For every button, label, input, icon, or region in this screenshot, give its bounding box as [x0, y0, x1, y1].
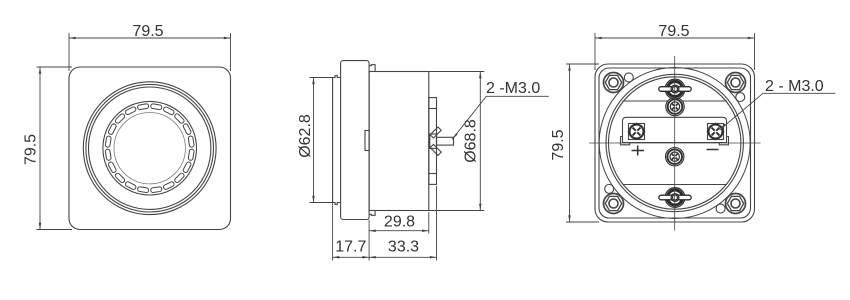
side flange mid tab — [365, 131, 369, 151]
back plus mark — [632, 146, 645, 156]
back body outer circle — [606, 74, 743, 211]
svg-text:17.7: 17.7 — [335, 239, 366, 256]
back terminal screw left — [628, 123, 645, 140]
back terminal left ear — [621, 137, 630, 145]
back terminal right ear — [719, 137, 728, 145]
side screw lower wing — [430, 144, 441, 155]
back lower chord line — [623, 184, 728, 186]
side screw upper wing — [430, 127, 441, 138]
side body bottom lip — [369, 211, 375, 216]
side bottom dimension 33.3 and 17.7 — [333, 186, 437, 261]
svg-text:79.5: 79.5 — [658, 23, 689, 40]
side dimension Ø62.8 — [310, 78, 333, 203]
back terminal block — [621, 117, 729, 145]
back center screw upper — [666, 97, 684, 115]
side screw head — [430, 134, 437, 148]
back label 2 - M3.0 leader — [720, 93, 836, 130]
side bottom dimension 29.8 — [369, 212, 429, 234]
back body inner circle — [609, 77, 741, 209]
front grille dashed slots ring — [105, 104, 194, 193]
side rear cap divider top — [429, 108, 437, 110]
svg-text:2 - M3.0: 2 - M3.0 — [765, 78, 824, 95]
side label 2-M3.0 leader — [452, 96, 549, 140]
svg-text:79.5: 79.5 — [132, 23, 163, 40]
svg-text:Ø68.8: Ø68.8 — [463, 119, 480, 163]
back inner square — [599, 68, 751, 218]
side screw shaft — [437, 137, 454, 145]
side bezel lens — [333, 76, 341, 205]
side rear cap — [429, 98, 437, 185]
front grille inner circle — [114, 113, 185, 184]
front grille outer circle — [103, 101, 197, 195]
side flange — [341, 61, 370, 220]
front ring circle b — [89, 87, 211, 209]
back terminal left square — [629, 124, 645, 140]
back vertical centerline — [674, 56, 676, 231]
svg-text:2 -M3.0: 2 -M3.0 — [486, 80, 540, 97]
svg-text:Ø62.8: Ø62.8 — [297, 114, 314, 158]
front outer circle — [83, 82, 216, 215]
front left dimension 79.5 — [37, 67, 73, 230]
back outer square — [595, 64, 755, 222]
back centerlines — [589, 56, 761, 231]
side body top lip — [369, 65, 375, 72]
back center screw lower — [666, 148, 684, 166]
svg-text:79.5: 79.5 — [23, 134, 40, 165]
back mounting post top M3 — [659, 79, 691, 99]
back mounting post bottom M3 — [659, 188, 691, 208]
back terminal screw right — [707, 123, 724, 140]
back horizontal centerline — [589, 142, 761, 144]
back corner nuts — [604, 73, 746, 214]
side rear cap divider bottom — [429, 173, 437, 175]
back terminal right square — [708, 124, 724, 140]
front ring circle a — [86, 84, 214, 212]
back terminal screws / center screws / wing posts — [628, 79, 724, 207]
svg-text:33.3: 33.3 — [388, 239, 419, 256]
svg-text:79.5: 79.5 — [550, 129, 567, 160]
back minus mark — [707, 149, 719, 151]
front top dimension 79.5 — [69, 33, 231, 71]
side body cylinder — [369, 72, 429, 211]
back satellite circles — [605, 73, 745, 213]
back mounting flange circle — [599, 68, 750, 219]
back upper chord line — [623, 100, 728, 102]
back top dimension 79.5 — [595, 33, 755, 70]
svg-text:29.8: 29.8 — [384, 214, 415, 231]
side dimension Ø68.8 — [429, 72, 485, 211]
back left dimension 79.5 — [566, 64, 599, 222]
front bezel square — [69, 67, 231, 230]
